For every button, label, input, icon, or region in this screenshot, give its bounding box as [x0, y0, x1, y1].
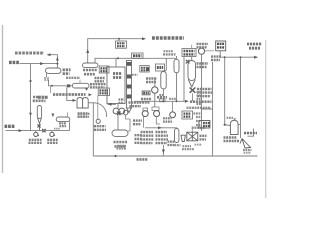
pump 3 lower	[172, 101, 174, 112]
pump blowdown circle	[97, 96, 99, 120]
node on bottom line	[114, 155, 116, 157]
wire stub down to steam text	[50, 86, 52, 93]
wire into ko drum	[225, 57, 231, 125]
pump 1 lower with top box	[143, 108, 148, 111]
cone bottom of reactor	[188, 80, 195, 88]
page left border	[2, 25, 4, 173]
arrow on fuel line	[19, 129, 23, 132]
label P-402 (2 lines)	[47, 139, 58, 141]
arrow into drum D-406	[67, 84, 70, 87]
wire pump discharge	[248, 129, 254, 137]
arrow into furnace	[73, 99, 77, 102]
label to PSA	[244, 132, 257, 135]
wire deaerator to fuel line	[69, 121, 71, 130]
wire bfw top line	[145, 127, 177, 130]
valve on fuel line	[42, 129, 45, 132]
label steam drum (2 lines)	[114, 141, 128, 144]
page right border	[265, 40, 267, 198]
wire ko drum out	[238, 124, 240, 126]
stub into hatched box	[191, 128, 193, 132]
label D-401	[63, 68, 71, 71]
vessel stripper tower (narrow with trays)	[127, 61, 132, 109]
small text bottom of column	[119, 98, 125, 100]
valve under drum	[45, 77, 49, 81]
wire box left drop to midline	[183, 57, 185, 102]
label above cigar vessel (2 lines)	[33, 96, 45, 99]
small box left of column lower	[98, 88, 109, 96]
text block 2 (4 lines)	[156, 131, 168, 133]
pump 2 lower with top box	[152, 107, 159, 110]
wire pump1 down elbow	[143, 117, 145, 128]
vessel deaerator column small	[175, 129, 179, 143]
text PG above ko drum	[227, 117, 234, 119]
text labels along left of vertical	[197, 91, 202, 93]
arrow on feed line	[40, 62, 44, 65]
wire drum nozzle	[86, 88, 88, 91]
label drum D-406	[66, 77, 80, 79]
label inside column (2 lines)	[113, 72, 122, 75]
vessel small steam drum vertical	[174, 59, 179, 72]
label pump	[175, 144, 181, 146]
wire column bottom to circles to drum	[117, 104, 119, 109]
label hydrogen to users (2 lines)	[247, 43, 262, 46]
wire buffer circle down	[201, 54, 203, 131]
cone bottom of cigar	[38, 118, 42, 131]
relief circle at tower bottom	[123, 110, 128, 115]
pump P-402	[51, 131, 53, 133]
wire right drop line	[240, 57, 242, 138]
PSA box	[216, 41, 226, 51]
text above midline	[157, 96, 167, 99]
wire product line	[220, 51, 257, 57]
wire furnace right to bottom frame	[92, 103, 94, 156]
label waste boiler (2 lines)	[146, 77, 157, 79]
text fuel gas	[5, 125, 16, 128]
wire column top to header	[115, 58, 117, 67]
vessel knockout drum D-403	[234, 119, 236, 121]
label D-402 (2 lines)	[83, 69, 97, 72]
text below bottom line	[137, 158, 149, 161]
text right of midline arrow	[190, 100, 212, 103]
vessel desorb gas buffer circle	[198, 48, 204, 54]
label 3 lines right of valve	[197, 88, 212, 90]
wire tower bottom to drum	[126, 115, 130, 131]
label blowdown pump (2 lines)	[94, 125, 106, 127]
label above it (2 lines)	[163, 53, 176, 55]
arrow stub left of column	[108, 103, 117, 105]
vessel small steam drum above furnace	[72, 83, 89, 88]
text above bottom line right	[244, 152, 252, 154]
node junction	[29, 80, 31, 82]
text left of column (2 lines)	[95, 77, 106, 79]
arrow right at overhead end	[142, 37, 146, 40]
node on transfer line	[51, 85, 53, 87]
pump P-401	[35, 131, 37, 133]
valve under cigar	[37, 124, 40, 127]
wire main vertical from feed line	[30, 64, 32, 131]
node on header	[117, 57, 119, 59]
wire drum riser and return to convection	[48, 55, 58, 68]
text right of hatched box	[200, 135, 207, 137]
text: flue gas to convection	[15, 52, 44, 55]
text above bottom line mid	[183, 145, 192, 147]
furnace reformer box (two cells)	[77, 98, 83, 109]
arrow on steam text row	[89, 93, 93, 96]
wire top overhead line	[88, 39, 142, 63]
vessel shift column	[161, 72, 166, 90]
text 3 rows right of steam drum	[135, 134, 142, 136]
label pump small	[243, 149, 252, 151]
text: converted gas to shift	[152, 36, 184, 40]
text block right of pumps	[163, 117, 172, 119]
label P-401 (2 lines)	[29, 139, 42, 141]
label ko drum (2 lines)	[224, 136, 238, 138]
vessel hydrogenator big column	[107, 67, 125, 104]
text block right of drum D-406	[90, 83, 106, 85]
wire box top stub	[191, 45, 193, 49]
pump circle mid	[152, 87, 158, 93]
label exchanger (2 lines)	[141, 98, 151, 100]
arrow up on riser	[86, 49, 89, 53]
text above bfw line	[192, 126, 206, 128]
wire box to big column	[191, 57, 193, 61]
wire reactor valve down	[192, 93, 194, 101]
label lean pump (2 lines)	[133, 119, 142, 121]
furnace arc elbow	[94, 103, 107, 117]
label furnace	[78, 112, 89, 114]
instrument box pair mid	[140, 66, 149, 73]
box above big column	[182, 49, 196, 57]
label reactor (2 lines)	[197, 62, 209, 64]
text above bottom line left	[117, 145, 126, 147]
label under deaerator (2 lines)	[59, 122, 66, 124]
instrument boxes low pair	[182, 111, 193, 119]
arrowhead on vert line right	[52, 114, 55, 118]
wire drum bottom down	[47, 73, 73, 85]
wire shift col bottom	[162, 89, 164, 101]
wire fuel gas line	[6, 130, 70, 132]
label above (2 lines)	[197, 43, 209, 45]
text row above low boxes	[187, 107, 212, 109]
wire drop into it	[176, 56, 178, 59]
box shift converter label	[156, 64, 165, 71]
wire midline	[134, 100, 187, 102]
wire its bottom to midline	[176, 73, 178, 102]
vessel separator D-402	[83, 63, 99, 67]
small texts near 201 line lower	[197, 103, 202, 105]
vessel deaerator drum	[56, 117, 70, 121]
pump cone	[240, 139, 251, 149]
vessel fuel-gas KO pot (cigar)	[37, 106, 41, 119]
instrument box FRC	[132, 53, 144, 59]
exchanger box	[142, 91, 150, 95]
boxed gauge low	[199, 121, 210, 129]
small box top-left inside column zone	[99, 66, 109, 73]
instrument box PRC	[118, 39, 120, 41]
vessel big shift reactor	[188, 61, 196, 81]
node on midline	[162, 100, 164, 102]
wire vertical into bottom line	[162, 145, 164, 156]
wire pump2 down elbow	[156, 117, 160, 125]
cone bottom of tower	[127, 108, 132, 113]
wire to furnace	[67, 87, 75, 100]
text steam	[38, 96, 49, 99]
arrowhead on vert line left	[29, 113, 32, 117]
label silencer (2 lines)	[129, 101, 142, 103]
hatched box boiler	[187, 132, 198, 141]
wire bottom frame line	[93, 155, 257, 157]
pump trapezoid	[181, 135, 185, 141]
valve on drop	[186, 60, 190, 64]
text block 1 (4 lines)	[141, 131, 154, 133]
label right of deaerator (2 lines)	[78, 113, 90, 115]
vessel desulfur drum D-401	[46, 68, 62, 73]
label 4.0MPa (2 lines)	[211, 55, 221, 57]
wire circle to PSA box	[205, 50, 214, 52]
wire cross header	[95, 58, 176, 63]
twin exchanger circles	[113, 108, 119, 114]
wire short vert	[202, 62, 213, 156]
valve diamond below reactor	[190, 88, 196, 93]
small text above fuel line	[54, 128, 60, 130]
vessel steam drum (horizontal)	[112, 130, 128, 136]
text: raw oil	[9, 61, 20, 64]
text mp steam row	[53, 93, 86, 96]
label (2 lines)	[168, 141, 176, 143]
text right of low boxes	[194, 112, 202, 114]
drum top stub	[67, 113, 69, 118]
wire furnace outlet	[88, 102, 94, 104]
drum top stub	[79, 80, 81, 84]
wire feed line	[20, 63, 58, 65]
wire drop into shift column	[165, 58, 167, 71]
